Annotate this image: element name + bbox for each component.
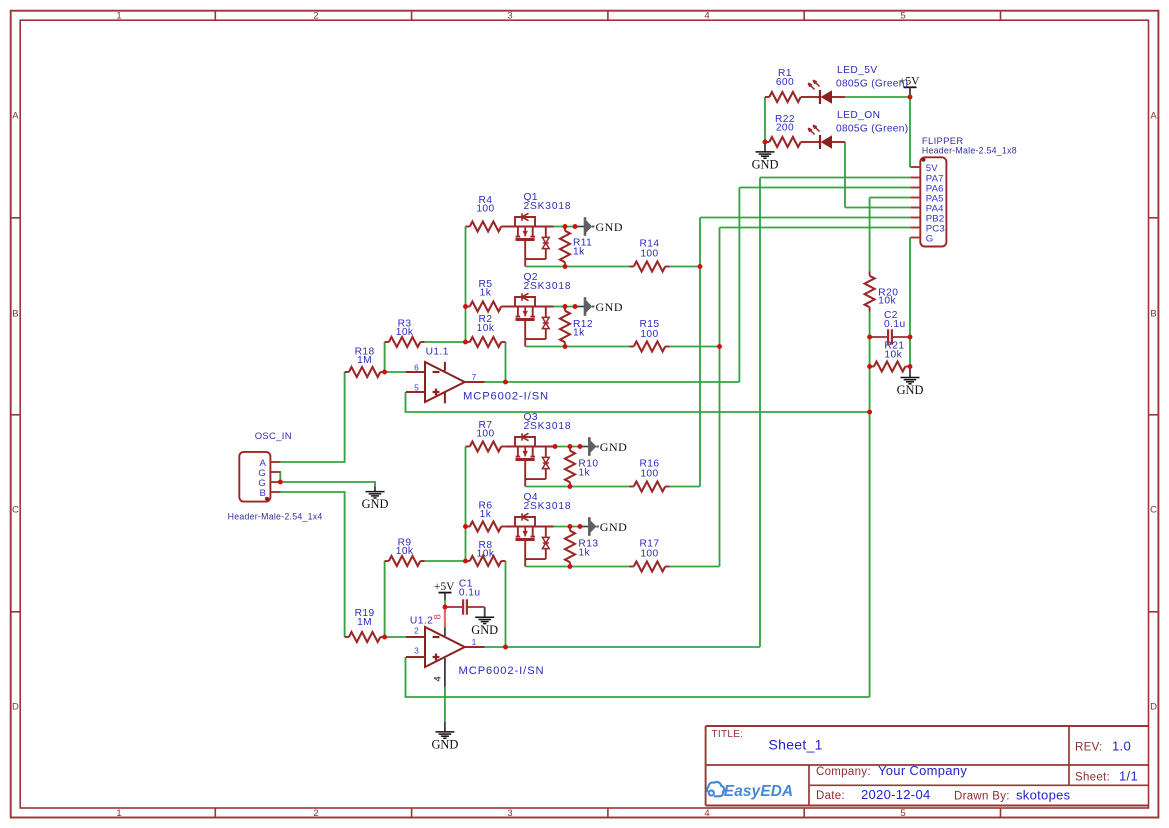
resistor R21 bbox=[870, 341, 910, 372]
connector FLIPPER bbox=[910, 136, 1017, 247]
resistor R6 bbox=[466, 500, 506, 531]
junction Q3 drain a bbox=[553, 444, 558, 449]
resistor R19 bbox=[345, 608, 385, 642]
svg-text:6: 6 bbox=[414, 362, 419, 372]
junction pin1 R8 bbox=[503, 645, 508, 650]
svg-text:2: 2 bbox=[414, 625, 419, 635]
wire Q4 source to R17 bbox=[526, 566, 630, 568]
wire gate bus lower vertical bbox=[465, 447, 467, 562]
svg-text:GND: GND bbox=[752, 158, 779, 172]
svg-text:1k: 1k bbox=[573, 328, 585, 339]
resistor R3 bbox=[385, 318, 425, 347]
resistor R18 bbox=[345, 347, 385, 377]
wire U1.2 pin3 loop bbox=[406, 657, 870, 697]
junction Q2 drain b bbox=[573, 304, 578, 309]
resistor R1 bbox=[765, 68, 805, 102]
svg-text:Your Company: Your Company bbox=[878, 763, 967, 778]
svg-text:100: 100 bbox=[476, 204, 494, 215]
svg-text:5V: 5V bbox=[926, 163, 939, 174]
svg-text:2: 2 bbox=[313, 11, 318, 22]
capacitor C1 bbox=[447, 579, 485, 615]
wire R3 to R2 junction bbox=[425, 341, 466, 343]
svg-text:U1.2: U1.2 bbox=[410, 615, 433, 626]
wire OSC A to R18 bbox=[280, 372, 345, 462]
svg-text:B: B bbox=[1150, 309, 1156, 320]
svg-text:2SK3018: 2SK3018 bbox=[524, 201, 572, 212]
ruler letters right bbox=[1150, 111, 1157, 713]
svg-text:OSC_IN: OSC_IN bbox=[255, 431, 292, 442]
svg-text:10k: 10k bbox=[396, 327, 414, 338]
resistor R22 bbox=[765, 114, 805, 147]
svg-text:0.1u: 0.1u bbox=[884, 319, 906, 330]
ground flag stem U1.2 pin4 bbox=[444, 722, 446, 732]
svg-text:B: B bbox=[259, 488, 266, 499]
wire R3 left down bbox=[384, 342, 386, 372]
svg-text:2020-12-04: 2020-12-04 bbox=[861, 787, 931, 802]
wire PA5 down to R20 bbox=[869, 198, 871, 272]
svg-text:1k: 1k bbox=[578, 548, 590, 559]
EasyEDA logo bbox=[707, 782, 793, 800]
wire PB2 vertical bbox=[699, 218, 701, 487]
junction Q3 drain b bbox=[568, 444, 573, 449]
svg-text:1M: 1M bbox=[357, 617, 372, 628]
power +5V top +5V bbox=[899, 76, 920, 97]
wire R8 right down to pin1 net bbox=[505, 561, 507, 647]
svg-text:U1.1: U1.1 bbox=[426, 347, 449, 358]
svg-text:REV:: REV: bbox=[1075, 742, 1103, 754]
svg-text:TITLE:: TITLE: bbox=[712, 729, 744, 740]
svg-text:GND: GND bbox=[897, 383, 924, 397]
op-amp U1.1 MCP6002-I/SN bbox=[406, 362, 485, 404]
junction C2 right bbox=[908, 335, 913, 340]
wire R2 right down to pin7 net bbox=[505, 342, 507, 382]
resistor R4 bbox=[466, 195, 506, 232]
junction R6 left bbox=[463, 524, 468, 529]
resistor R5 bbox=[466, 279, 506, 312]
ground GND at R21 bbox=[897, 378, 924, 398]
svg-text:Company:: Company: bbox=[816, 766, 871, 778]
svg-text:1k: 1k bbox=[578, 468, 590, 479]
junction pin2 node bbox=[382, 635, 387, 640]
resistor R7 bbox=[466, 420, 506, 451]
svg-text:Drawn By:: Drawn By: bbox=[954, 791, 1010, 803]
junction pin6 node bbox=[382, 370, 387, 375]
wire R16 to PB2 vertical bbox=[670, 486, 701, 488]
junction Q1 drain a bbox=[563, 224, 568, 229]
wire Q3 source to R16 bbox=[526, 486, 630, 488]
wire +5V to header 5V pin bbox=[909, 97, 911, 167]
ground GND flag Q3 bbox=[589, 437, 627, 456]
junction R14 right bbox=[698, 264, 703, 269]
svg-text:B: B bbox=[12, 309, 18, 320]
transistor Q1 2SK3018 bbox=[506, 192, 572, 266]
ruler ticks bottom bbox=[215, 808, 1000, 818]
svg-text:EasyEDA: EasyEDA bbox=[724, 783, 793, 800]
junction R10 bottom bbox=[568, 484, 573, 489]
wire Q4 drain to GND bbox=[554, 526, 582, 528]
svg-text:7: 7 bbox=[472, 372, 477, 382]
resistor R12 bbox=[560, 307, 593, 347]
junction R5 left bbox=[463, 304, 468, 309]
wire PA6 vertical bbox=[738, 188, 740, 383]
svg-text:0805G (Green): 0805G (Green) bbox=[836, 123, 908, 134]
junction Q4 drain b bbox=[578, 524, 583, 529]
wire R14 to PB2 bbox=[670, 266, 701, 268]
svg-text:Date:: Date: bbox=[816, 790, 845, 802]
svg-text:5: 5 bbox=[900, 808, 905, 819]
svg-text:5: 5 bbox=[414, 382, 419, 392]
wire Q3 drain to GND bbox=[554, 446, 582, 448]
svg-text:1/1: 1/1 bbox=[1119, 768, 1138, 783]
svg-text:0.1u: 0.1u bbox=[459, 588, 481, 599]
svg-text:10k: 10k bbox=[878, 295, 896, 306]
svg-text:4: 4 bbox=[432, 676, 443, 681]
svg-text:1: 1 bbox=[116, 11, 121, 22]
wire LED_ON to PA4 vertical bbox=[844, 142, 846, 208]
svg-text:4: 4 bbox=[704, 11, 709, 22]
wire PA7 net horizontal bbox=[760, 177, 910, 179]
svg-text:0805G (Green): 0805G (Green) bbox=[836, 78, 908, 89]
junction bias node bbox=[867, 410, 872, 415]
wire R17 to PC3 vertical bbox=[670, 566, 720, 568]
resistor R15 bbox=[630, 319, 670, 352]
svg-text:600: 600 bbox=[776, 77, 794, 88]
svg-text:LED_ON: LED_ON bbox=[837, 110, 880, 121]
power +5V +5V at C1 bbox=[434, 581, 455, 602]
junction +5V top bbox=[908, 95, 913, 100]
wire PC3 net horizontal bbox=[720, 227, 911, 229]
svg-text:10k: 10k bbox=[477, 323, 495, 334]
ruler letters left bbox=[12, 111, 19, 713]
wire header G pin down to C2/R21 bbox=[909, 238, 911, 367]
ruler ticks left bbox=[11, 218, 21, 612]
svg-text:C: C bbox=[12, 505, 19, 516]
wire U1.1 pin7 to PA6 bbox=[485, 381, 740, 383]
ground GND at U1.2 bbox=[431, 732, 458, 752]
svg-text:100: 100 bbox=[640, 469, 658, 480]
transistor Q4 2SK3018 bbox=[506, 492, 572, 566]
svg-text:C: C bbox=[1150, 505, 1157, 516]
svg-text:5: 5 bbox=[900, 11, 905, 22]
svg-text:100: 100 bbox=[476, 428, 494, 439]
resistor R8 bbox=[466, 540, 506, 566]
svg-text:100: 100 bbox=[640, 549, 658, 560]
svg-text:GND: GND bbox=[362, 497, 389, 511]
svg-text:Sheet:: Sheet: bbox=[1075, 771, 1110, 783]
wire R9 to R8 junction bbox=[425, 560, 466, 562]
svg-text:MCP6002-I/SN: MCP6002-I/SN bbox=[459, 665, 545, 677]
svg-text:3: 3 bbox=[414, 645, 419, 655]
svg-text:2SK3018: 2SK3018 bbox=[524, 421, 572, 432]
svg-text:A: A bbox=[1150, 111, 1157, 122]
wire U1.2 pin1 to PA7 bbox=[485, 646, 761, 648]
ground GND flag Q1 bbox=[585, 217, 623, 236]
svg-text:200: 200 bbox=[776, 123, 794, 134]
wire R18 to pin6 bbox=[385, 371, 406, 373]
junction R22 left bbox=[763, 140, 768, 145]
svg-text:G: G bbox=[926, 234, 934, 245]
resistor R20 bbox=[865, 272, 899, 312]
resistor R11 bbox=[560, 227, 592, 267]
wire PA6 net horizontal bbox=[739, 187, 910, 189]
junction R12 bottom bbox=[563, 344, 568, 349]
LED LED1 bbox=[805, 65, 908, 104]
wire R1 left to R22 left / GND bbox=[764, 97, 766, 142]
svg-text:skotopes: skotopes bbox=[1016, 788, 1071, 803]
svg-text:Header-Male-2.54_1x4: Header-Male-2.54_1x4 bbox=[228, 511, 323, 521]
wire +5V C1 junction drop bbox=[444, 602, 446, 607]
svg-text:1: 1 bbox=[472, 637, 477, 647]
junction R13 bottom bbox=[568, 564, 573, 569]
wire R20 bottom to bias node bbox=[869, 312, 871, 698]
wire R9 left down bbox=[384, 561, 386, 637]
junction R11 bottom bbox=[563, 264, 568, 269]
junction Q2 drain a bbox=[563, 304, 568, 309]
wire OSC B to R19 bbox=[280, 492, 345, 637]
svg-text:MCP6002-I/SN: MCP6002-I/SN bbox=[463, 390, 549, 402]
svg-text:100: 100 bbox=[640, 249, 658, 260]
ground flag stem R22 bbox=[764, 142, 766, 151]
svg-text:Sheet_1: Sheet_1 bbox=[769, 737, 823, 753]
svg-text:2: 2 bbox=[313, 808, 318, 819]
svg-text:2SK3018: 2SK3018 bbox=[524, 281, 572, 292]
wire R19 to pin2 bbox=[385, 636, 406, 638]
svg-text:Header-Male-2.54_1x8: Header-Male-2.54_1x8 bbox=[922, 146, 1017, 156]
resistor R10 bbox=[565, 447, 598, 487]
junction R2 left bbox=[463, 340, 468, 345]
svg-text:10k: 10k bbox=[477, 549, 495, 560]
wire U1.2 pin4 to GND bbox=[444, 687, 446, 722]
resistor R2 bbox=[466, 314, 506, 347]
resistor R13 bbox=[565, 527, 598, 567]
svg-text:A: A bbox=[12, 111, 19, 122]
ground flag stem R21 bbox=[909, 367, 911, 378]
ground GND flag Q2 bbox=[585, 297, 623, 316]
wire PA7 vertical bbox=[759, 178, 761, 648]
junction C1 node bbox=[443, 605, 448, 610]
svg-text:2SK3018: 2SK3018 bbox=[524, 501, 572, 512]
svg-text:100: 100 bbox=[640, 329, 658, 340]
wire Q1 source to R14 bbox=[526, 266, 630, 268]
svg-text:1M: 1M bbox=[357, 355, 372, 366]
ruler ticks right bbox=[1149, 218, 1159, 612]
svg-text:D: D bbox=[12, 702, 19, 713]
wire R15 to PC3 bbox=[670, 346, 720, 348]
wire LED_5V to +5V node bbox=[845, 96, 910, 98]
svg-text:8: 8 bbox=[432, 614, 443, 619]
transistor Q2 2SK3018 bbox=[506, 272, 572, 346]
wire Q2 source to R15 bbox=[526, 346, 630, 348]
ground GND at OSC_IN bbox=[362, 492, 389, 512]
junction Q4 drain a bbox=[568, 524, 573, 529]
ground GND at C1 bbox=[471, 617, 498, 637]
title block frame bbox=[706, 726, 1149, 806]
resistor R9 bbox=[385, 537, 425, 566]
wire PA4 net horizontal bbox=[845, 207, 910, 209]
junction OSC G junction bbox=[278, 480, 283, 485]
ground flag stem C1 bbox=[484, 607, 486, 617]
wire Q1 drain to GND bbox=[554, 226, 578, 228]
wire PA5 net horizontal bbox=[870, 197, 911, 199]
svg-text:1k: 1k bbox=[573, 247, 585, 258]
resistor R14 bbox=[630, 239, 670, 272]
resistor R17 bbox=[630, 539, 670, 572]
wire PC3 vertical bbox=[719, 228, 721, 567]
wire U1.1 pin5 feedback bbox=[406, 392, 870, 412]
junction Q3 drain c bbox=[578, 444, 583, 449]
svg-text:4: 4 bbox=[704, 808, 709, 819]
svg-text:1: 1 bbox=[116, 808, 121, 819]
svg-text:3: 3 bbox=[507, 11, 512, 22]
ground GND at R22 bbox=[752, 152, 779, 172]
svg-text:10k: 10k bbox=[884, 349, 902, 360]
resistor R16 bbox=[630, 459, 670, 492]
junction pin7 R2 bbox=[503, 380, 508, 385]
svg-text:GND: GND bbox=[600, 440, 628, 454]
LED LED2 bbox=[805, 110, 908, 149]
svg-text:GND: GND bbox=[471, 623, 498, 637]
transistor Q3 2SK3018 bbox=[506, 412, 572, 486]
svg-text:GND: GND bbox=[431, 738, 458, 752]
junction R8 left bbox=[463, 559, 468, 564]
svg-text:D: D bbox=[1150, 702, 1157, 713]
ground flag stem OSC_IN bbox=[374, 487, 376, 492]
junction C2 left bbox=[867, 335, 872, 340]
wire OSC G2 to GND bbox=[280, 482, 375, 487]
svg-text:LED_5V: LED_5V bbox=[837, 65, 878, 76]
junction R15 right bbox=[717, 344, 722, 349]
junction R21 left bbox=[867, 364, 872, 369]
capacitor C2 bbox=[870, 310, 910, 345]
svg-text:3: 3 bbox=[507, 808, 512, 819]
svg-text:1k: 1k bbox=[480, 288, 492, 299]
junction R21 right bbox=[908, 364, 913, 369]
junction Q1 drain b bbox=[573, 224, 578, 229]
svg-text:GND: GND bbox=[600, 520, 628, 534]
ruler numbers top bbox=[116, 11, 905, 22]
svg-text:GND: GND bbox=[596, 220, 624, 234]
ruler numbers bottom bbox=[116, 808, 905, 819]
wire Q2 drain to GND bbox=[554, 306, 578, 308]
wire OSC G1 elbow bbox=[279, 472, 281, 482]
connector OSC_IN bbox=[228, 431, 323, 521]
ruler ticks top bbox=[215, 11, 1000, 21]
svg-text:1.0: 1.0 bbox=[1112, 739, 1131, 754]
op-amp U1.2 MCP6002-I/SN bbox=[406, 607, 485, 687]
wire PB2 net horizontal bbox=[700, 217, 910, 219]
ground GND flag Q4 bbox=[589, 517, 627, 536]
wire gate bus upper vertical bbox=[465, 227, 467, 343]
svg-text:1k: 1k bbox=[480, 509, 492, 520]
svg-text:10k: 10k bbox=[396, 546, 414, 557]
svg-text:GND: GND bbox=[596, 300, 624, 314]
svg-text:+5V: +5V bbox=[434, 581, 455, 593]
